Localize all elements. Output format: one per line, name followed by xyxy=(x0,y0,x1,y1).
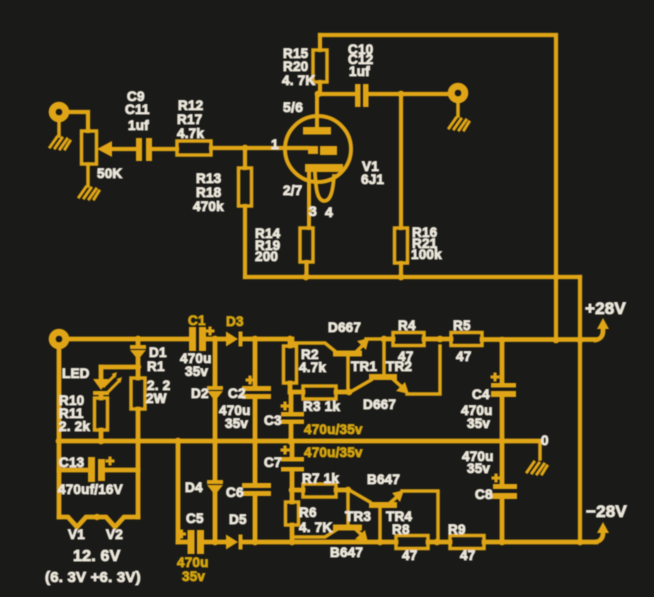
svg-text:V1: V1 xyxy=(68,527,85,542)
svg-text:−28V: −28V xyxy=(586,502,627,521)
svg-text:C5: C5 xyxy=(186,511,204,526)
svg-text:D4: D4 xyxy=(185,480,203,495)
resistor R4 47 xyxy=(384,333,440,346)
svg-text:4: 4 xyxy=(325,204,333,220)
wire left vertical of bottom rail xyxy=(176,441,181,542)
node right vertical bottom xyxy=(577,539,584,546)
svg-text:C2: C2 xyxy=(228,386,246,401)
svg-text:200: 200 xyxy=(255,249,278,264)
capacitor C3 xyxy=(281,392,305,441)
svg-text:2. 2k: 2. 2k xyxy=(59,419,90,434)
svg-text:R20: R20 xyxy=(283,59,308,74)
node R6/R7/C7 xyxy=(289,487,296,494)
svg-text:R9: R9 xyxy=(448,522,466,537)
svg-text:R3 1k: R3 1k xyxy=(303,399,340,414)
node R4/R5 junction xyxy=(437,336,444,343)
ground (pot) xyxy=(86,164,90,186)
resistor R1 2.2 2W xyxy=(131,378,145,517)
wire C9 to R12 xyxy=(152,147,177,151)
-28V arrow xyxy=(596,522,609,542)
wire right vertical xyxy=(578,277,582,542)
svg-text:470uf/16V: 470uf/16V xyxy=(58,482,123,497)
svg-text:4.7k: 4.7k xyxy=(177,126,204,141)
svg-text:R6: R6 xyxy=(299,505,317,520)
svg-text:B647: B647 xyxy=(367,472,400,487)
svg-text:TR3: TR3 xyxy=(345,509,371,524)
transistor TR4 B647 xyxy=(351,490,438,542)
svg-text:C7: C7 xyxy=(264,455,282,470)
resistor R7 1k xyxy=(292,484,348,497)
tube V1 6J1 envelope xyxy=(285,116,351,182)
svg-text:47: 47 xyxy=(460,548,475,563)
svg-text:35v: 35v xyxy=(225,416,248,431)
capacitor C5 470u/35v xyxy=(177,530,204,555)
svg-text:470u/35v: 470u/35v xyxy=(304,422,363,437)
svg-text:R12: R12 xyxy=(178,98,203,113)
svg-text:35v: 35v xyxy=(182,569,205,584)
capacitor C8 470u/35v xyxy=(491,441,517,542)
svg-text:47: 47 xyxy=(398,349,413,364)
node D1 top xyxy=(135,336,142,343)
resistor R13/R18 470k xyxy=(239,148,252,277)
svg-text:50K: 50K xyxy=(97,166,122,181)
node output junction xyxy=(398,91,405,98)
svg-text:D667: D667 xyxy=(328,320,361,335)
resistor R10/R11 2.2k xyxy=(95,398,108,441)
ground (input jack) xyxy=(50,137,70,149)
svg-text:4. 7K: 4. 7K xyxy=(282,73,315,88)
wire jack to pot xyxy=(68,112,88,131)
input jack xyxy=(52,105,66,119)
svg-text:4.7k: 4.7k xyxy=(299,360,326,375)
svg-text:R5: R5 xyxy=(453,318,471,333)
diode D1 xyxy=(130,339,146,378)
node C8 bottom rail xyxy=(499,539,506,546)
node plate junction xyxy=(315,91,322,98)
svg-text:R13: R13 xyxy=(196,171,222,186)
capacitor C13 470uf/16V xyxy=(59,457,138,483)
svg-text:35v: 35v xyxy=(467,416,490,431)
node rail junctions left xyxy=(56,438,63,445)
wire tube bottom rail xyxy=(245,275,580,279)
ground (0V) xyxy=(527,462,547,474)
resistor R8 47 xyxy=(396,536,428,549)
0V terminal xyxy=(538,441,542,459)
ground (output jack) xyxy=(456,102,460,116)
potentiometer 50K xyxy=(82,131,138,164)
+28V arrow xyxy=(596,318,609,340)
diode D4 xyxy=(207,480,223,495)
svg-text:C11: C11 xyxy=(125,102,150,117)
wire top rail xyxy=(320,35,556,340)
svg-text:D5: D5 xyxy=(229,512,247,527)
node R6 bottom xyxy=(289,539,296,546)
output jack xyxy=(451,86,465,100)
svg-text:1uf: 1uf xyxy=(349,64,370,79)
node C4/C8 rail xyxy=(499,438,506,445)
resistor R14/R19 200 xyxy=(300,228,313,277)
node C2 top xyxy=(252,336,259,343)
svg-text:2/7: 2/7 xyxy=(283,183,302,198)
svg-text:D3: D3 xyxy=(226,314,244,329)
resistor R15/R20 4.7K xyxy=(313,35,327,94)
svg-text:470k: 470k xyxy=(193,199,224,214)
tube plate xyxy=(303,127,331,135)
wire R12 to grid xyxy=(211,146,307,150)
wire 0V rail xyxy=(59,439,540,444)
wire plate node to C10 xyxy=(318,92,355,96)
svg-text:12. 6V: 12. 6V xyxy=(73,548,121,565)
svg-text:D667: D667 xyxy=(363,397,396,412)
wire psu top rail left xyxy=(68,337,189,342)
node R2 top xyxy=(287,336,294,343)
svg-text:R7 1k: R7 1k xyxy=(302,471,339,486)
node R7/TR3 base xyxy=(345,487,352,494)
svg-text:6J1: 6J1 xyxy=(361,172,384,187)
wire left vertical xyxy=(57,348,62,517)
svg-text:35v: 35v xyxy=(185,364,208,379)
node rail/tube vertical xyxy=(553,337,560,344)
svg-text:C8: C8 xyxy=(475,487,493,502)
wire C1 to D3 xyxy=(206,337,227,342)
svg-text:3: 3 xyxy=(309,203,317,219)
resistor R6 4.7K xyxy=(286,490,299,542)
node R14 rail xyxy=(303,274,310,281)
node R16 rail xyxy=(398,274,405,281)
tube cathode xyxy=(305,164,343,172)
svg-text:0: 0 xyxy=(541,433,549,448)
svg-text:D1: D1 xyxy=(149,345,167,360)
input terminal xyxy=(52,332,66,346)
capacitor C9/C11 1uf xyxy=(136,138,152,161)
tube heater loop pins 3,4 xyxy=(315,173,334,201)
capacitor C7 xyxy=(281,441,305,490)
svg-text:C13: C13 xyxy=(59,455,85,470)
svg-text:LED: LED xyxy=(62,366,90,381)
resistor R16/R21 100k xyxy=(395,94,408,277)
svg-text:47: 47 xyxy=(456,349,471,364)
node TR4 emitter rail xyxy=(434,539,441,546)
svg-text:100k: 100k xyxy=(411,247,442,262)
node TR4 base/rail xyxy=(377,539,384,546)
transistor TR3 B647 xyxy=(294,490,368,542)
wire D1 junction to LED branch xyxy=(101,365,138,370)
resistor R12/R17 4.7k xyxy=(177,141,211,155)
svg-text:R4: R4 xyxy=(398,318,416,333)
tube grid (dashes) xyxy=(308,146,337,155)
diode D5 xyxy=(226,535,243,550)
capacitor C2 branch xyxy=(242,339,271,441)
node rail/top-wire xyxy=(553,274,560,281)
node C6 bottom xyxy=(252,539,259,546)
wire bottom rail xyxy=(178,540,596,545)
transistor TR1 D667 xyxy=(292,338,384,392)
svg-text:R17: R17 xyxy=(177,112,202,127)
svg-text:470u: 470u xyxy=(177,555,209,570)
resistor R3 1k xyxy=(290,386,349,399)
node R3/TR1 base xyxy=(346,389,353,396)
svg-text:C4: C4 xyxy=(472,387,490,402)
svg-text:R8: R8 xyxy=(392,522,410,537)
svg-text:C1: C1 xyxy=(188,313,206,328)
svg-text:+28V: +28V xyxy=(585,299,626,318)
svg-text:B647: B647 xyxy=(330,545,363,560)
svg-text:47: 47 xyxy=(402,548,417,563)
svg-text:1uf: 1uf xyxy=(128,118,149,133)
capacitor C1 470u/35v xyxy=(189,327,215,352)
svg-text:D2: D2 xyxy=(191,386,209,401)
node C3 rail xyxy=(287,438,294,445)
node top of D2 branch xyxy=(212,336,219,343)
svg-text:(6. 3V +6. 3V): (6. 3V +6. 3V) xyxy=(45,569,141,586)
resistor R2 4.7k xyxy=(284,339,297,392)
node TR2 base/rail xyxy=(381,336,388,343)
svg-text:2W: 2W xyxy=(146,391,167,406)
capacitor C4 470u/35v xyxy=(491,340,517,441)
svg-text:C3: C3 xyxy=(264,413,282,428)
svg-text:4. 7K: 4. 7K xyxy=(299,520,332,535)
node C4 top xyxy=(499,337,506,344)
svg-text:35v: 35v xyxy=(467,461,490,476)
node rail/right vertical xyxy=(577,337,584,344)
svg-text:V2: V2 xyxy=(106,527,123,542)
LED xyxy=(93,367,122,398)
node grid/R13 junction xyxy=(242,145,249,152)
diode D2 branch xyxy=(207,339,223,542)
svg-text:R1: R1 xyxy=(147,359,165,374)
svg-text:470u/35v: 470u/35v xyxy=(304,445,363,460)
svg-text:5/6: 5/6 xyxy=(283,99,303,115)
transformer winding V1/V2 xyxy=(59,514,138,527)
wire D3 to R2 node xyxy=(242,337,292,342)
capacitor C6 xyxy=(242,441,271,542)
svg-text:TR1: TR1 xyxy=(351,359,377,374)
svg-text:C6: C6 xyxy=(226,485,244,500)
wire C10 to output xyxy=(369,92,449,96)
node D2 branch bottom xyxy=(212,539,219,546)
svg-text:1: 1 xyxy=(271,137,279,152)
svg-text:R18: R18 xyxy=(196,185,222,200)
diode D3 xyxy=(226,332,243,347)
transistor TR2 D667 xyxy=(352,339,440,394)
capacitor C10/C12 1uf xyxy=(355,84,369,107)
resistor R5 47 xyxy=(440,333,596,346)
resistor R9 47 xyxy=(450,536,484,549)
